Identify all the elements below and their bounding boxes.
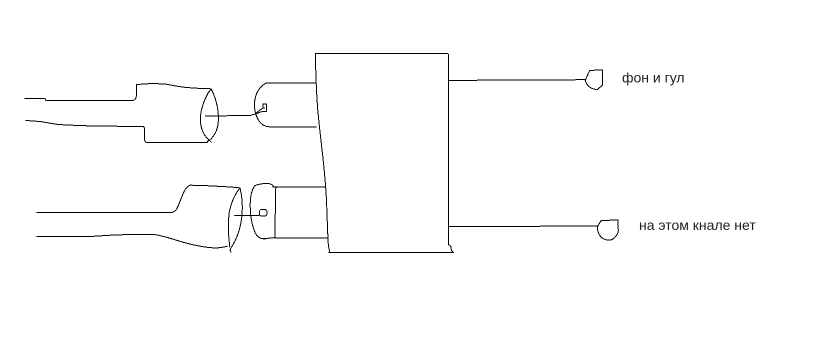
socket J1 center hole square [263,104,267,111]
socket J1 pin-entry wedge [255,108,263,114]
svg-text:на этом кнале нет: на этом кнале нет [639,217,756,233]
socket J2 right edge [275,187,276,238]
svg-text:фон и гул: фон и гул [622,70,685,86]
amplifier box outline [316,54,454,253]
plug P1 body top edge [137,84,212,89]
wire top-left cable upper conductor [25,85,137,101]
earphone E2 (bottom right) [598,220,619,240]
wire box to top-right output [449,79,587,82]
socket J2 cap top edge [255,183,274,186]
plug P2 body top edge [191,185,241,188]
plug P1 tip leaf outline [200,89,211,142]
pin of plug P2 [235,214,260,216]
wire socket J2 bottom to box [275,237,327,239]
socket J1 dome left arc [254,84,270,127]
socket J2 dome left arc [250,186,265,239]
wire socket J2 top to box [273,186,326,188]
earphone E1 (top right) [585,70,602,90]
pin of plug P1 [206,114,255,116]
wire top-left cable lower conductor [26,121,208,143]
wire socket J1 top to box [266,82,316,84]
socket J2 bottom edge [263,238,274,239]
socket J2 center hole square [260,210,267,216]
wire bottom-left cable lower conductor [37,235,227,248]
plug P2 tip leaf outline (crossed at bottom) [228,188,240,247]
wire bottom-left cable upper conductor [37,185,191,212]
wire box to bottom-right output [450,225,598,227]
wire socket J1 bottom to box [270,126,317,128]
